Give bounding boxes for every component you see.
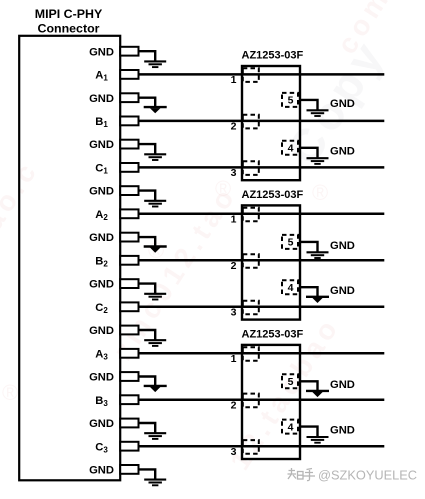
svg-text:5: 5 bbox=[288, 237, 294, 249]
connector pin box C2 row 12 bbox=[120, 302, 138, 311]
svg-text:1: 1 bbox=[231, 214, 237, 226]
IC U1 pin 4 internal dashed cell bbox=[282, 141, 298, 155]
ground symbol (earth bars) row 1 bbox=[144, 61, 166, 67]
wire C1 bus line bbox=[139, 166, 385, 169]
ground symbol (filled triangle) row 9 bbox=[144, 247, 167, 253]
connector pin box A1 row 2 bbox=[120, 70, 138, 79]
connector pin box GND row 3 bbox=[120, 93, 138, 102]
svg-text:GND: GND bbox=[89, 139, 114, 151]
wire B2 bus line bbox=[139, 259, 385, 262]
svg-text:GND: GND bbox=[89, 279, 114, 291]
watermark credit zhihu @SZKOYUELEC bbox=[288, 468, 316, 481]
svg-text:3: 3 bbox=[231, 167, 237, 179]
ground symbol (earth bars) row 11 bbox=[144, 294, 166, 300]
wire GND pin row 13 to ground bbox=[139, 330, 156, 340]
IC U1 pin 2 internal dashed cell bbox=[243, 115, 259, 129]
svg-text:2: 2 bbox=[231, 121, 237, 133]
svg-text:®: ® bbox=[312, 180, 328, 205]
ground symbol (filled triangle) row 15 bbox=[144, 386, 167, 392]
svg-text:®: ® bbox=[215, 176, 231, 201]
wire A1 bus line bbox=[139, 73, 385, 76]
IC U2 pin 4 internal dashed cell bbox=[282, 280, 298, 294]
wire GND pin row 19 to ground bbox=[139, 469, 156, 479]
wire IC U3 pin 4 to ground bbox=[299, 427, 318, 437]
connector pin box GND row 17 bbox=[120, 419, 138, 428]
svg-text:1: 1 bbox=[231, 74, 237, 86]
wire A2 bus line bbox=[139, 213, 385, 216]
connector J1 MIPI C-PHY body bbox=[19, 36, 120, 481]
svg-text:4: 4 bbox=[288, 421, 294, 433]
ground symbol (earth bars) row 19 bbox=[144, 480, 166, 486]
IC U3 pin 2 internal dashed cell bbox=[243, 394, 259, 408]
connector pin box A3 row 14 bbox=[120, 349, 138, 358]
svg-text:4: 4 bbox=[288, 282, 294, 294]
IC U1 pin 3 internal dashed cell bbox=[243, 161, 259, 175]
IC U2 pin 2 internal dashed cell bbox=[243, 254, 259, 268]
svg-text:5: 5 bbox=[288, 376, 294, 388]
IC U2 pin 1 internal dashed cell bbox=[243, 208, 259, 222]
wire B3 bus line bbox=[139, 398, 385, 401]
svg-text:GND: GND bbox=[89, 325, 114, 337]
IC U3 pin 4 internal dashed cell bbox=[282, 420, 298, 434]
svg-text:AZ1253-03F: AZ1253-03F bbox=[242, 50, 304, 62]
wire B1 bus line bbox=[139, 120, 385, 123]
wire IC U1 pin 4 to ground bbox=[299, 148, 318, 158]
IC U1 body bbox=[242, 66, 300, 180]
wire GND pin row 5 to ground bbox=[139, 144, 156, 154]
svg-text:GND: GND bbox=[330, 379, 355, 391]
ground symbol U2 pin 5 bbox=[307, 252, 329, 258]
connector pin box GND row 11 bbox=[120, 279, 138, 288]
wire IC U1 pin 5 to ground bbox=[299, 100, 318, 110]
connector pin box B3 row 16 bbox=[120, 395, 138, 404]
svg-text:GND: GND bbox=[89, 46, 114, 58]
svg-text:3: 3 bbox=[231, 307, 237, 319]
wire C2 bus line bbox=[139, 306, 385, 309]
wire GND pin row 1 to ground bbox=[139, 51, 156, 61]
ground symbol (earth bars) row 17 bbox=[144, 433, 166, 439]
svg-text:Connector: Connector bbox=[38, 21, 100, 35]
IC U1 pin 5 internal dashed cell bbox=[282, 93, 298, 107]
IC U3 pin 5 internal dashed cell bbox=[282, 374, 298, 388]
svg-text:GND: GND bbox=[330, 240, 355, 252]
wire C3 bus line bbox=[139, 445, 385, 448]
IC U2 body bbox=[242, 205, 300, 319]
wire GND pin row 9 to ground bbox=[139, 237, 156, 247]
svg-text:GND: GND bbox=[89, 372, 114, 384]
ground symbol U3 pin 5 bbox=[306, 391, 329, 397]
svg-text:2: 2 bbox=[231, 400, 237, 412]
svg-text:MIPI C-PHY: MIPI C-PHY bbox=[35, 7, 103, 21]
connector pin box GND row 19 bbox=[120, 465, 138, 474]
svg-text:1: 1 bbox=[231, 353, 237, 365]
svg-text:GND: GND bbox=[89, 93, 114, 105]
svg-text:GND: GND bbox=[330, 146, 355, 158]
ground symbol (earth bars) row 13 bbox=[144, 340, 166, 346]
wire A3 bus line bbox=[139, 352, 385, 355]
ground symbol U3 pin 4 bbox=[307, 437, 329, 443]
IC U3 body bbox=[242, 345, 300, 459]
svg-text:5: 5 bbox=[288, 95, 294, 107]
svg-text:GND: GND bbox=[89, 418, 114, 430]
wire GND pin row 11 to ground bbox=[139, 284, 156, 294]
svg-text:GND: GND bbox=[89, 465, 114, 477]
wire IC U3 pin 5 to ground bbox=[299, 381, 318, 391]
svg-text:®: ® bbox=[2, 380, 18, 405]
svg-text:AZ1253-03F: AZ1253-03F bbox=[242, 328, 304, 340]
svg-text:3: 3 bbox=[231, 446, 237, 458]
connector pin box GND row 9 bbox=[120, 233, 138, 242]
wire GND pin row 3 to ground bbox=[139, 98, 156, 108]
ground symbol (filled triangle) row 3 bbox=[144, 107, 167, 113]
IC U2 pin 5 internal dashed cell bbox=[282, 235, 298, 249]
svg-text:GND: GND bbox=[330, 425, 355, 437]
wire GND pin row 7 to ground bbox=[139, 191, 156, 201]
svg-text:2: 2 bbox=[231, 260, 237, 272]
connector pin box GND row 15 bbox=[120, 372, 138, 381]
IC U3 pin 3 internal dashed cell bbox=[243, 440, 259, 454]
svg-text:GND: GND bbox=[89, 232, 114, 244]
wire IC U2 pin 5 to ground bbox=[299, 242, 318, 252]
wire IC U2 pin 4 to ground bbox=[299, 287, 318, 297]
connector pin box A2 row 8 bbox=[120, 209, 138, 218]
connector pin box GND row 5 bbox=[120, 140, 138, 149]
connector pin box C1 row 6 bbox=[120, 163, 138, 172]
svg-text:GND: GND bbox=[330, 98, 355, 110]
connector pin box B1 row 4 bbox=[120, 117, 138, 126]
svg-text:@SZKOYUELEC: @SZKOYUELEC bbox=[318, 468, 417, 483]
connector pin box C3 row 18 bbox=[120, 442, 138, 451]
connector pin box B2 row 10 bbox=[120, 256, 138, 265]
wire GND pin row 17 to ground bbox=[139, 423, 156, 433]
svg-text:GND: GND bbox=[89, 186, 114, 198]
ground symbol U2 pin 4 bbox=[306, 297, 329, 303]
ground symbol (earth bars) row 7 bbox=[144, 201, 166, 207]
connector pin box GND row 13 bbox=[120, 326, 138, 335]
IC U3 pin 1 internal dashed cell bbox=[243, 347, 259, 361]
svg-text:AZ1253-03F: AZ1253-03F bbox=[242, 189, 304, 201]
svg-text:4: 4 bbox=[288, 143, 294, 155]
connector pin box GND row 1 bbox=[120, 47, 138, 56]
IC U2 pin 3 internal dashed cell bbox=[243, 301, 259, 315]
ground symbol U1 pin 5 bbox=[307, 110, 329, 116]
ground symbol (earth bars) row 5 bbox=[144, 154, 166, 160]
wire GND pin row 15 to ground bbox=[139, 377, 156, 387]
ground symbol U1 pin 4 bbox=[307, 158, 329, 164]
connector pin box GND row 7 bbox=[120, 186, 138, 195]
IC U1 pin 1 internal dashed cell bbox=[243, 68, 259, 82]
svg-text:GND: GND bbox=[330, 285, 355, 297]
